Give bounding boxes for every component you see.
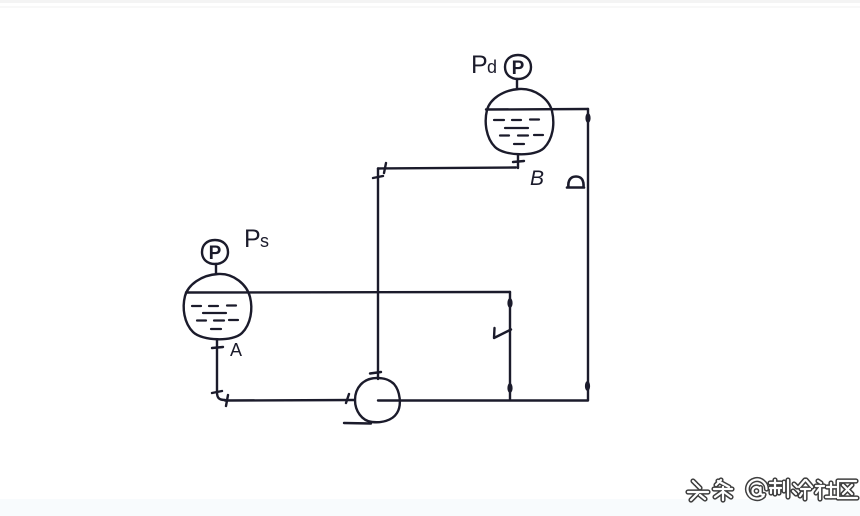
label D (rotated) xyxy=(567,177,584,188)
liquid dashes V2 xyxy=(494,120,543,145)
tick on bottom wire left xyxy=(226,395,228,406)
compressor shaft line xyxy=(378,399,588,401)
junction dot middle top xyxy=(507,298,512,308)
watermark char 社 xyxy=(816,481,836,499)
junction dot D top xyxy=(585,113,590,123)
pressure gauge P (top right) xyxy=(505,55,531,79)
compressor C1 xyxy=(355,378,400,422)
watermark char @ xyxy=(748,480,767,499)
liquid dashes V1 xyxy=(192,306,238,330)
watermark char 区 xyxy=(838,481,857,498)
gauge stub V2 xyxy=(516,79,518,89)
svg-text:P: P xyxy=(209,243,222,264)
tick on vertical wire xyxy=(373,176,383,178)
svg-text:P: P xyxy=(512,58,525,79)
svg-text:P: P xyxy=(244,225,261,253)
watermark char 头 xyxy=(688,481,708,500)
vessel V1 (suction accumulator, left) xyxy=(184,274,252,339)
liquid level line V1 xyxy=(186,291,510,294)
compressor base line xyxy=(344,422,371,425)
svg-text:B: B xyxy=(530,167,544,190)
gauge stub V1 xyxy=(215,264,217,274)
tick on stub A xyxy=(212,347,223,348)
outlet stub B below V2 xyxy=(517,155,519,168)
wire: corner down to compressor xyxy=(377,169,379,380)
valve check mark xyxy=(494,328,511,338)
tick at compressor inlet top xyxy=(370,372,381,374)
svg-text:A: A xyxy=(230,340,242,360)
vessel V2 (discharge receiver, top right) xyxy=(486,89,554,154)
corner A to bottom wire xyxy=(217,392,225,400)
watermark char 条 xyxy=(714,480,732,500)
tick on stub B xyxy=(513,161,524,162)
watermark 头条@制冷社区 xyxy=(688,480,857,500)
watermark char 冷 xyxy=(793,480,812,499)
junction dot D bottom xyxy=(585,381,590,391)
pressure gauge P (left) xyxy=(202,240,228,264)
tick low on stub A xyxy=(212,391,222,393)
svg-text:s: s xyxy=(260,231,269,251)
wire: discharge vertical D (right) xyxy=(587,109,589,400)
tick at compressor suction xyxy=(346,394,349,403)
liquid level line V2 xyxy=(486,108,588,111)
wire: bottom left to compressor xyxy=(225,399,355,402)
outlet stub A below V1 xyxy=(216,340,218,392)
watermark char 制 xyxy=(770,480,788,497)
svg-text:P: P xyxy=(471,51,488,79)
tick on horizontal wire xyxy=(384,163,386,173)
junction dot middle bottom xyxy=(507,383,512,393)
svg-text:d: d xyxy=(487,57,497,77)
wire: equalizer vertical (middle) xyxy=(509,292,511,400)
wire: B stub to corner (horizontal) xyxy=(378,168,516,169)
